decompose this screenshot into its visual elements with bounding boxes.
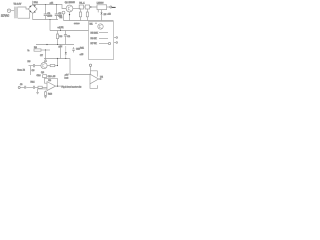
node dot [100,78,101,79]
diode D6 on branch [65,46,67,59]
svg-text:sense: sense [74,23,80,25]
meter box [89,22,114,60]
output [99,78,103,80]
resistor row2 wire [99,38,108,40]
wire down [45,50,47,59]
wire [20,87,24,89]
svg-text:R6 1K: R6 1K [91,38,98,40]
svg-text:+9V: +9V [65,74,69,76]
wire below [90,84,98,89]
svg-text:R7 5K: R7 5K [91,43,98,45]
wire tap [91,71,98,77]
wire pot down [63,14,65,21]
cap C11 [25,86,26,89]
wire branch [60,45,62,59]
plus input branch [36,89,47,94]
wire mid bus [50,30,89,32]
resistor R3 vertical [56,31,58,45]
node dot [69,14,70,15]
transistor Q3 [41,63,47,69]
svg-text:Q1 2N305: Q1 2N305 [65,2,76,4]
svg-text:117VAC: 117VAC [1,14,10,17]
svg-text:Fig 2 level meter ckt: Fig 2 level meter ckt [62,86,82,89]
terminal - [114,42,118,44]
svg-text:R5 10K: R5 10K [91,32,99,34]
wire stub top [32,1,34,5]
resistor box U1a [79,5,83,9]
node dot [46,44,47,45]
wire Q1 base down [69,12,71,21]
transformer T1 [14,7,18,19]
svg-text:from J2: from J2 [18,68,26,71]
wire to output [107,6,110,8]
tap tick [60,28,62,30]
resistor R8 horizontal [34,49,50,51]
op-amp U3 [47,82,56,91]
svg-text:T1 6.3V: T1 6.3V [14,4,22,6]
feedback wire [45,79,58,87]
feedback cap C13 [43,75,47,79]
wire [42,87,47,89]
zener D5 [101,10,103,21]
regulator box U2 [97,5,107,10]
bridge rectifier BR1 [28,5,37,14]
wire [11,10,15,12]
wire mid row [44,58,70,60]
node dot [45,49,46,50]
resistor R1 vertical [79,9,81,20]
input cap C9 [29,64,41,67]
wire stub [112,6,116,8]
wire node up [57,59,59,66]
resistor R2 vertical [86,9,88,21]
ground rail top-right [64,20,114,22]
output wire [56,85,62,87]
svg-text:LM309: LM309 [97,3,104,5]
node dot [57,44,58,45]
tick [97,10,99,13]
wire Q1 collector out [73,8,81,10]
resistor R13 to ground [44,91,47,98]
op-amp U4 [90,74,99,84]
svg-text:batt: batt [65,77,69,80]
node dot [56,4,57,5]
capacitor C8 vertical [44,59,47,62]
wire secondary top [18,7,29,9]
node dot [65,58,66,59]
wire right branch down [70,59,90,75]
input terminal [18,87,20,89]
AC source PL1 [7,9,10,12]
resistor row1 wire [99,32,108,34]
wire stair [49,20,51,31]
wire - rail [33,13,58,19]
cap C12 [33,86,34,89]
terminal circle inner [108,42,110,44]
node dot [57,86,58,87]
svg-text:R1 .1: R1 .1 [79,2,85,4]
wire + rail [33,5,66,9]
transistor Q1 [66,5,73,12]
capacitor C4 vertical [64,31,67,45]
wire [26,87,33,89]
capacitor C2 [55,5,59,20]
svg-text:C13 .05: C13 .05 [48,76,56,78]
resistor R10 [50,65,55,67]
node dot [95,23,96,24]
svg-text:adj 5k: adj 5k [58,27,65,29]
jack J4 [89,64,91,74]
capacitor C1 [44,5,48,20]
cap C10 [72,47,75,53]
node dot [45,4,46,5]
output terminal [110,6,112,8]
pot circle [62,11,65,14]
wire [35,87,38,89]
node dot [50,19,51,20]
wire secondary bottom [18,12,30,18]
node dot [57,65,58,66]
node dot [90,6,91,7]
wire Q3 out [47,65,57,67]
wire [84,6,97,8]
resistor box U1b [85,5,89,9]
wire lower rail [36,44,74,46]
transistor Q2 [98,24,103,29]
node dot [57,58,58,59]
wire row3 [99,43,108,45]
resistor R12 [38,86,42,88]
terminal + [114,37,118,39]
wire left input drop [30,66,32,75]
